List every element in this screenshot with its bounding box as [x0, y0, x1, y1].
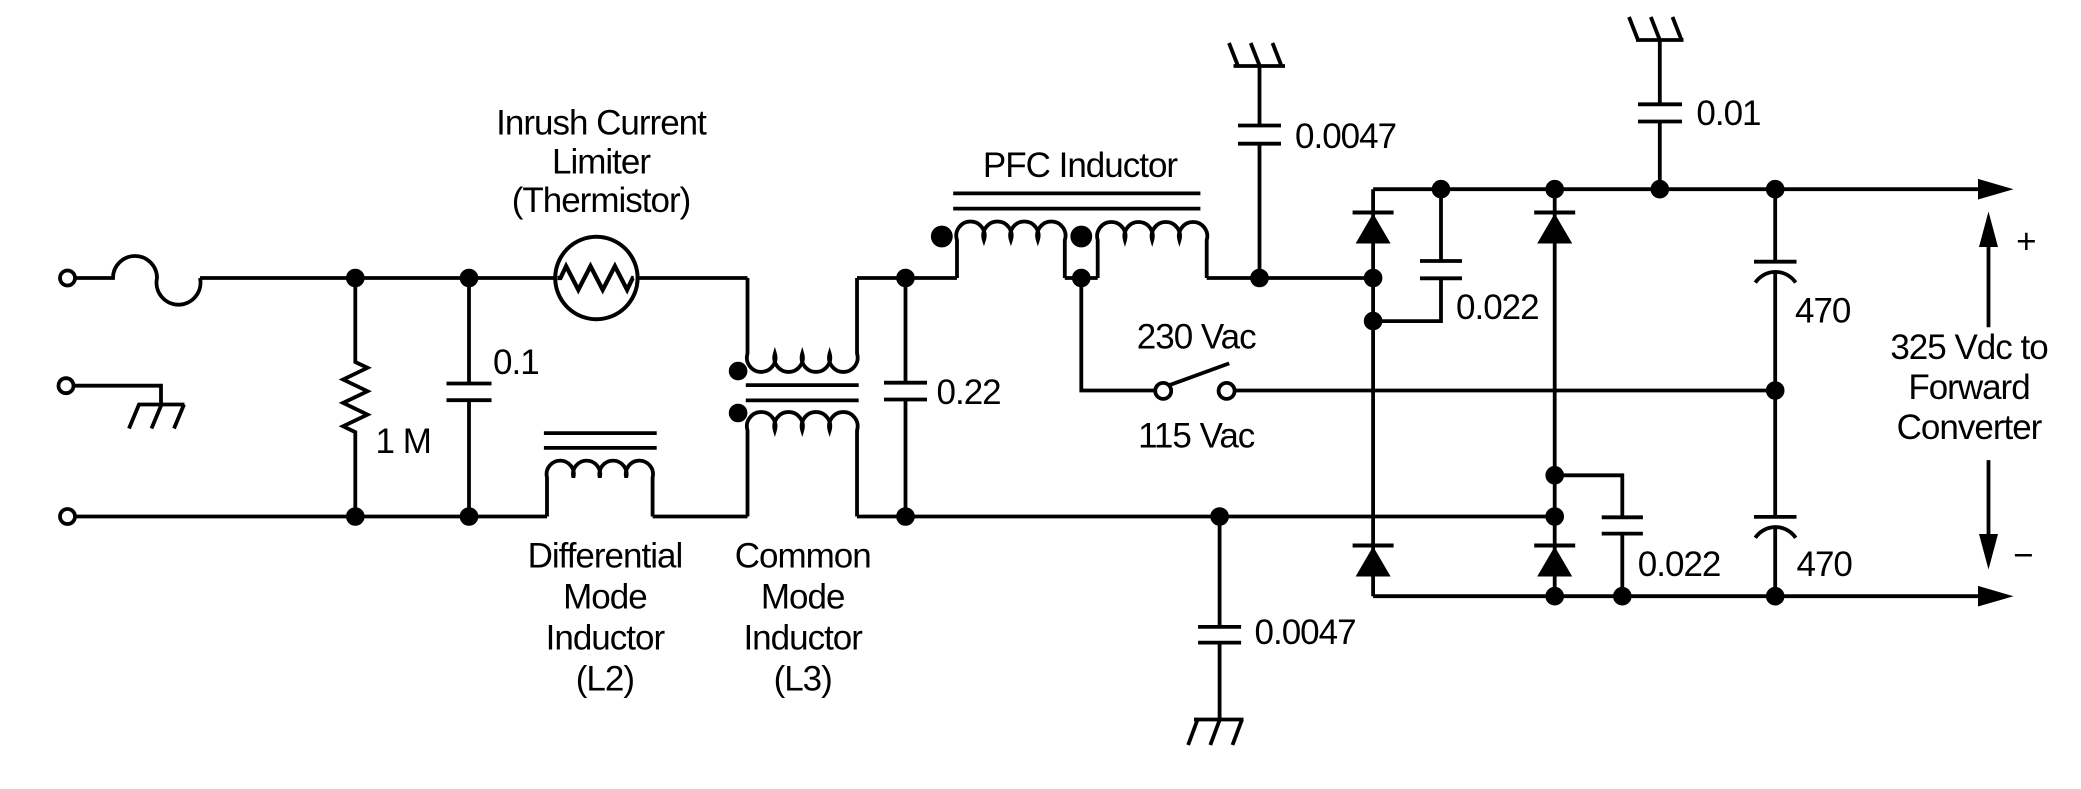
capacitor 470 bottom	[1754, 391, 1797, 597]
diode D3	[1353, 544, 1394, 548]
svg-text:PFC Inductor: PFC Inductor	[983, 146, 1179, 185]
inductor L3 common mode top winding	[747, 278, 858, 372]
label plus	[2016, 222, 2035, 261]
svg-text:0.22: 0.22	[937, 373, 1001, 412]
svg-text:0.0047: 0.0047	[1255, 613, 1356, 652]
svg-text:Common: Common	[735, 536, 871, 575]
node D2 / bottom AC rail	[1547, 509, 1562, 524]
svg-text:−: −	[2013, 536, 2032, 575]
svg-text:Inrush Current: Inrush Current	[496, 104, 707, 143]
ground (chassis, bottom of 0.0047)	[1188, 720, 1243, 746]
capacitor 0.22	[884, 278, 927, 517]
svg-text:Inductor: Inductor	[546, 618, 666, 657]
svg-text:0.01: 0.01	[1696, 94, 1760, 133]
svg-text:Forward: Forward	[1908, 368, 2029, 407]
phase dot L3 top	[731, 364, 746, 379]
node top bus / C0.01	[1652, 182, 1667, 197]
label 230 Vac	[1137, 318, 1256, 357]
node bottom rail / C0.1	[462, 509, 477, 524]
switch lever	[1169, 363, 1229, 385]
node top bus / C470	[1768, 182, 1783, 197]
node top bus / C0.022	[1434, 182, 1449, 197]
wire top rail L3 to PFC	[857, 276, 957, 280]
capacitor 0.1	[447, 278, 492, 517]
wire center tap to switch	[1081, 278, 1155, 391]
phase dot PFC center	[1072, 228, 1090, 246]
wire PFC center tap segment	[1065, 276, 1098, 280]
inductor L3 core lines	[746, 385, 859, 400]
wire bottom bus	[1373, 594, 1982, 598]
label 325 Vdc to Forward Converter	[1890, 328, 2047, 447]
terminal line input	[60, 271, 75, 286]
label 470 bottom	[1797, 545, 1853, 584]
svg-text:325 Vdc to: 325 Vdc to	[1890, 328, 2047, 367]
svg-text:1 M: 1 M	[376, 422, 431, 461]
wire bottom rail left	[75, 515, 547, 519]
svg-text:(L2): (L2)	[576, 659, 634, 698]
phase dot PFC left	[933, 228, 951, 246]
svg-text:Converter: Converter	[1897, 408, 2043, 447]
node bottom rail / C0.0047 bottom	[1212, 509, 1227, 524]
label 0.0047 bottom	[1255, 613, 1356, 652]
label 0.01	[1696, 94, 1760, 133]
label 0.022 bottom	[1638, 545, 1721, 584]
svg-text:(Thermistor): (Thermistor)	[512, 181, 691, 220]
wire thermistor to L3	[638, 276, 748, 280]
label 0.022 top	[1456, 288, 1539, 327]
inductor L2 differential mode winding	[547, 461, 653, 517]
svg-text:(L3): (L3)	[774, 659, 832, 698]
ground (chassis, input)	[129, 405, 185, 429]
node top rail / R1	[348, 271, 363, 286]
label 0.0047 top	[1295, 117, 1396, 156]
label minus	[2013, 536, 2032, 575]
arrowhead bottom bus	[1978, 586, 2014, 607]
label 0.22	[937, 373, 1001, 412]
svg-text:Limiter: Limiter	[552, 142, 651, 181]
bridge left vertical wire	[1371, 189, 1375, 596]
svg-text:0.0047: 0.0047	[1295, 117, 1396, 156]
svg-text:470: 470	[1797, 545, 1853, 584]
node bottom bus / D4	[1547, 589, 1562, 604]
arrowhead top bus	[1978, 179, 2014, 200]
diode D4	[1534, 544, 1575, 548]
svg-text:Mode: Mode	[761, 577, 845, 616]
node D2 / 0.022 bottom link	[1547, 468, 1562, 483]
wire bottom rail L2 to L3	[653, 515, 748, 519]
node top bus / D2	[1547, 182, 1562, 197]
wire earth to ground	[74, 386, 162, 405]
inrush current limiter thermistor	[555, 237, 637, 319]
node top rail / C0.1	[462, 271, 477, 286]
node PFC center tap	[1074, 271, 1089, 286]
wire bottom rail L3 to bridge	[857, 515, 1555, 519]
svg-text:0.022: 0.022	[1456, 288, 1539, 327]
label 115 Vac	[1138, 416, 1255, 455]
svg-text:0.022: 0.022	[1638, 545, 1721, 584]
svg-text:Mode: Mode	[563, 577, 647, 616]
inductor L3 bottom winding	[747, 412, 858, 517]
switch contact left	[1155, 383, 1171, 399]
capacitor 470 top	[1754, 189, 1797, 390]
node D1 / 0.022 link	[1366, 314, 1381, 329]
node top rail / C0.0047	[1252, 271, 1267, 286]
label Common Mode Inductor (L3)	[735, 536, 871, 698]
capacitor 0.022 bottom	[1555, 475, 1643, 596]
fuse F1	[75, 256, 201, 305]
node top rail / C0.22	[898, 271, 913, 286]
svg-text:230 Vac: 230 Vac	[1137, 318, 1256, 357]
label 470 top	[1795, 291, 1851, 330]
diode D1	[1353, 211, 1394, 215]
diode D2	[1534, 211, 1575, 215]
wire top bus	[1373, 187, 1982, 191]
inductor L2 core lines	[544, 433, 657, 448]
svg-text:Inductor: Inductor	[743, 618, 863, 657]
label Inrush Current Limiter (Thermistor)	[496, 104, 707, 220]
wire switch to 470 caps midpoint	[1235, 389, 1776, 393]
label 1 M	[376, 422, 431, 461]
terminal earth input	[59, 378, 74, 393]
output arrow up	[1987, 245, 1991, 327]
node D1 / top AC rail	[1366, 271, 1381, 286]
node bottom rail / C0.22	[898, 509, 913, 524]
ground (chassis, top of 0.0047)	[1229, 43, 1285, 66]
switch contact right	[1219, 383, 1235, 399]
PFC inductor core lines	[953, 193, 1200, 208]
PFC inductor winding section 1	[956, 222, 1065, 278]
node bottom bus / C0.022	[1615, 589, 1630, 604]
node bottom bus / C470	[1768, 589, 1783, 604]
capacitor 0.0047 bottom	[1198, 517, 1241, 720]
label PFC Inductor	[983, 146, 1179, 185]
svg-text:0.1: 0.1	[493, 343, 539, 382]
svg-text:115 Vac: 115 Vac	[1138, 416, 1255, 455]
output arrow down	[1987, 460, 1991, 534]
wire top rail PFC to bridge	[1207, 276, 1373, 280]
bridge right vertical wire	[1553, 189, 1557, 596]
resistor 1 M	[343, 278, 367, 517]
terminal neutral input	[60, 509, 75, 524]
node bottom rail / R1	[348, 509, 363, 524]
label 0.1	[493, 343, 539, 382]
capacitor 0.0047 top	[1238, 66, 1281, 278]
svg-text:Differential: Differential	[528, 536, 683, 575]
ground (chassis, top of 0.01)	[1629, 17, 1684, 40]
label Differential Mode Inductor (L2)	[528, 536, 683, 698]
node switch line end	[1768, 383, 1783, 398]
PFC inductor winding section 2	[1097, 222, 1207, 278]
svg-text:+: +	[2016, 222, 2035, 261]
phase dot L3 bottom	[731, 406, 746, 421]
capacitor 0.01	[1638, 40, 1682, 189]
wire top rail left	[200, 276, 555, 280]
svg-text:470: 470	[1795, 291, 1851, 330]
capacitor 0.022 top	[1373, 189, 1462, 321]
